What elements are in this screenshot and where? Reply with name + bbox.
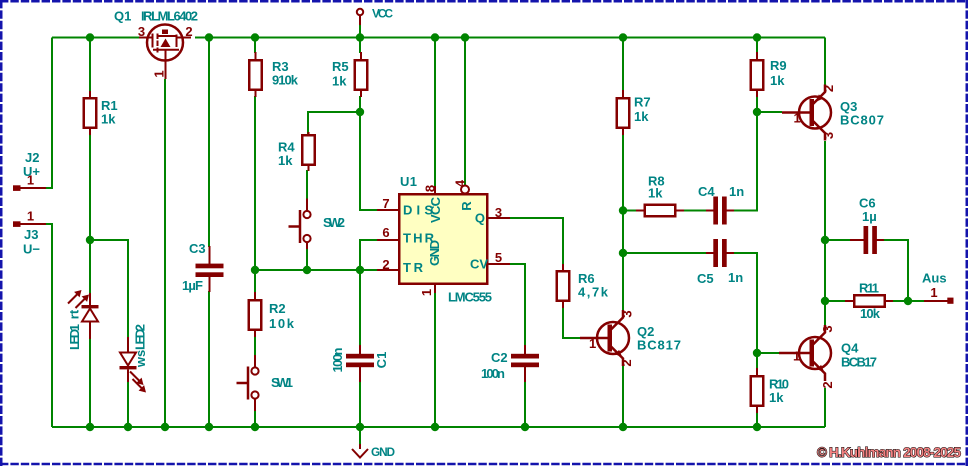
svg-text:3: 3	[495, 205, 502, 220]
svg-text:BC817: BC817	[637, 338, 681, 353]
svg-text:IRLML6402: IRLML6402	[141, 9, 198, 24]
svg-text:1: 1	[793, 349, 800, 364]
svg-text:R2: R2	[269, 301, 286, 316]
svg-text:1µ: 1µ	[862, 209, 877, 224]
svg-text:910k: 910k	[272, 73, 299, 88]
svg-text:1n: 1n	[728, 270, 743, 285]
svg-text:C2: C2	[491, 350, 508, 365]
svg-text:SW2: SW2	[323, 215, 345, 230]
svg-text:R5: R5	[332, 59, 349, 74]
svg-text:8: 8	[423, 185, 438, 192]
svg-text:7: 7	[382, 196, 389, 211]
svg-text:J2: J2	[25, 150, 39, 165]
svg-text:100n: 100n	[481, 366, 505, 381]
svg-text:Q1: Q1	[114, 9, 131, 24]
svg-text:1: 1	[419, 289, 434, 296]
svg-text:1k: 1k	[770, 73, 785, 88]
svg-text:1: 1	[589, 336, 596, 351]
svg-text:1k: 1k	[648, 186, 663, 201]
svg-text:LED2: LED2	[133, 324, 148, 350]
svg-text:1: 1	[794, 111, 801, 126]
svg-text:100n: 100n	[330, 347, 345, 372]
svg-text:1k: 1k	[278, 153, 293, 168]
svg-text:BCB17: BCB17	[841, 355, 877, 370]
svg-text:GND: GND	[371, 445, 395, 459]
svg-text:U−: U−	[23, 242, 40, 257]
svg-text:VCC: VCC	[428, 196, 443, 223]
svg-text:1: 1	[930, 285, 937, 300]
svg-text:1n: 1n	[729, 184, 744, 199]
svg-text:BC807: BC807	[840, 113, 884, 128]
svg-text:LMC555: LMC555	[448, 290, 492, 305]
svg-text:R7: R7	[634, 95, 651, 110]
svg-text:J3: J3	[24, 227, 38, 242]
svg-text:1k: 1k	[332, 74, 347, 89]
svg-text:Aus: Aus	[922, 271, 947, 286]
svg-text:1k: 1k	[769, 390, 784, 405]
svg-text:2: 2	[820, 381, 835, 388]
svg-text:10k: 10k	[860, 306, 881, 321]
svg-text:2: 2	[185, 24, 192, 39]
svg-text:VCC: VCC	[372, 7, 393, 21]
svg-text:Q: Q	[475, 211, 485, 226]
svg-text:SW1: SW1	[271, 375, 293, 390]
svg-text:3: 3	[820, 325, 835, 332]
svg-text:C3: C3	[189, 241, 206, 256]
svg-text:TR: TR	[403, 260, 424, 275]
svg-text:6: 6	[382, 225, 389, 240]
svg-text:ws: ws	[133, 350, 148, 368]
svg-text:rt: rt	[67, 309, 82, 319]
svg-text:1: 1	[27, 209, 34, 224]
svg-text:Q4: Q4	[841, 341, 859, 356]
svg-text:4: 4	[453, 179, 468, 187]
svg-text:C1: C1	[374, 352, 389, 369]
svg-text:3: 3	[138, 24, 145, 39]
svg-text:3: 3	[821, 132, 836, 139]
svg-text:1: 1	[27, 173, 34, 188]
svg-text:GND: GND	[427, 240, 442, 266]
svg-text:2: 2	[382, 257, 389, 272]
svg-text:5: 5	[495, 250, 502, 265]
svg-text:4,7k: 4,7k	[578, 285, 609, 300]
svg-text:2: 2	[821, 85, 836, 92]
svg-text:1k: 1k	[634, 109, 649, 124]
svg-text:3: 3	[620, 310, 635, 317]
svg-text:R9: R9	[770, 58, 787, 73]
svg-text:1k: 1k	[101, 112, 116, 127]
svg-text:2: 2	[619, 359, 634, 366]
svg-text:C5: C5	[697, 271, 714, 286]
svg-text:U1: U1	[400, 174, 417, 189]
svg-text:LED1: LED1	[67, 324, 82, 350]
svg-text:10k: 10k	[269, 316, 295, 331]
svg-text:C4: C4	[698, 184, 715, 199]
svg-text:CV: CV	[470, 257, 488, 272]
svg-text:1: 1	[152, 70, 167, 77]
svg-text:1µF: 1µF	[182, 278, 203, 293]
svg-text:R: R	[459, 201, 474, 211]
svg-text:© H.Kuhlmann 2008-2025: © H.Kuhlmann 2008-2025	[817, 445, 961, 460]
svg-text:R11: R11	[859, 281, 879, 296]
